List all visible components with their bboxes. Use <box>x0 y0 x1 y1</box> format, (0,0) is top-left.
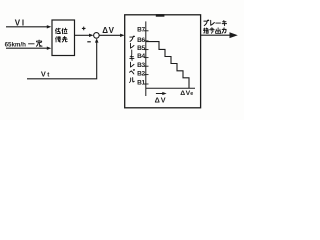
svg-text:65km/h: 65km/h <box>5 41 27 48</box>
svg-text:B5: B5 <box>137 45 145 52</box>
y axis <box>145 21 147 96</box>
thick mark on block top edge <box>156 14 165 17</box>
arrowhead into summing junction <box>89 34 94 37</box>
svg-text:B7: B7 <box>137 27 145 34</box>
wire input Vl <box>6 26 48 28</box>
arrowhead into quantizer block <box>120 34 125 37</box>
svg-text:Δ: Δ <box>155 95 160 104</box>
wire input 65km/h <box>6 47 48 49</box>
arrowhead feedback up into summing junction <box>95 38 99 42</box>
B level labels B7-B1 <box>137 27 145 87</box>
arrowhead into box input 1 <box>47 25 52 28</box>
svg-text:V: V <box>161 95 166 104</box>
svg-text:V: V <box>15 18 21 27</box>
svg-text:B6: B6 <box>137 37 145 44</box>
output label ブレーキ <box>204 20 209 26</box>
svg-text:B2: B2 <box>137 70 145 77</box>
svg-text:V: V <box>109 26 115 35</box>
svg-text:Δ: Δ <box>180 90 185 97</box>
x axis <box>146 87 195 89</box>
svg-text:Δ: Δ <box>102 26 108 35</box>
svg-text:B4: B4 <box>137 53 145 60</box>
tick marks at B levels <box>144 31 149 84</box>
wire Vt feedback <box>27 42 97 79</box>
summing junction circle <box>94 33 100 39</box>
staircase curve <box>146 42 189 89</box>
low-select box 低位優先 <box>52 20 75 56</box>
wire box to summing junction <box>75 34 91 36</box>
arrowhead into box input 2 <box>47 47 52 50</box>
wire summing junction to quantizer block <box>99 34 121 36</box>
dV axis annotation arrow <box>156 93 164 95</box>
label 一定 <box>29 43 35 45</box>
arrowhead brake output <box>230 32 238 38</box>
svg-text:t: t <box>47 71 50 78</box>
svg-text:B3: B3 <box>137 62 145 69</box>
vertical text brake level ブレーキレベル <box>130 36 135 41</box>
svg-text:l: l <box>22 18 24 27</box>
minus sign <box>87 41 91 43</box>
box text 優先 <box>56 36 61 42</box>
wire brake command output <box>201 34 231 36</box>
svg-text:V: V <box>41 69 46 78</box>
quantizer block <box>125 15 201 108</box>
output label 指令出力 <box>203 28 208 33</box>
svg-text:e: e <box>190 91 193 97</box>
box text 低位 <box>56 28 61 33</box>
plus sign <box>82 27 86 31</box>
svg-text:B1: B1 <box>137 79 145 86</box>
